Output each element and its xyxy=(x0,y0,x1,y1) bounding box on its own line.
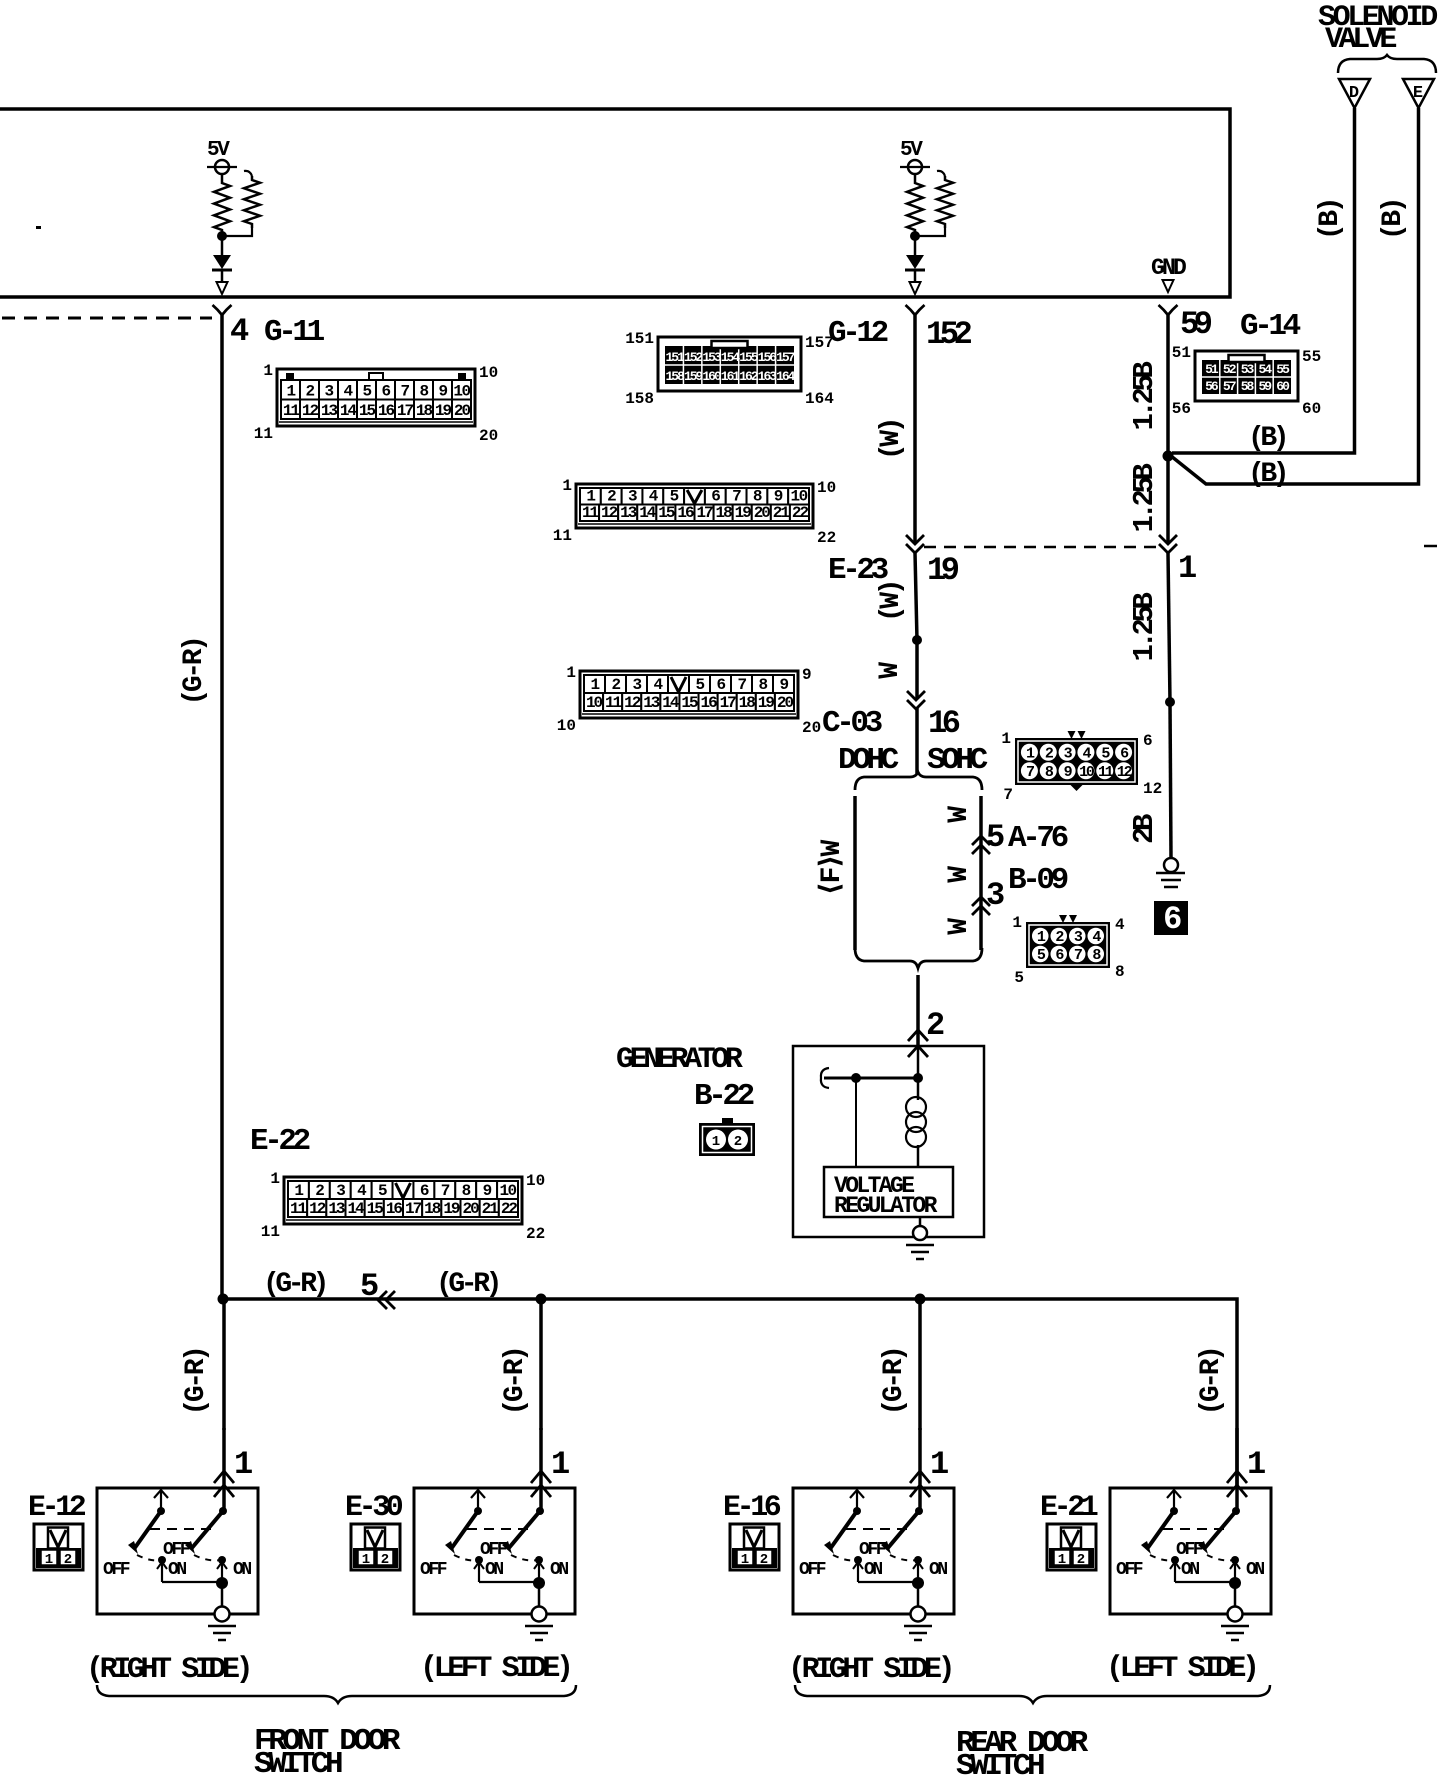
svg-text:151: 151 xyxy=(625,330,654,348)
ground symbol E-30 xyxy=(525,1625,553,1628)
svg-text:16: 16 xyxy=(677,504,694,522)
svg-text:2: 2 xyxy=(611,676,620,694)
svg-text:SOHC: SOHC xyxy=(927,743,988,778)
connector E-22 face xyxy=(284,1177,522,1224)
switch box E-12 xyxy=(97,1488,258,1614)
connector E-23 face xyxy=(576,484,813,528)
svg-text:1: 1 xyxy=(270,1170,280,1188)
svg-text:2: 2 xyxy=(381,1552,389,1568)
svg-text:9: 9 xyxy=(779,676,788,694)
svg-text:12: 12 xyxy=(624,694,641,712)
junction dot on W wire xyxy=(912,635,922,645)
svg-text:3: 3 xyxy=(336,1182,345,1200)
svg-text:56: 56 xyxy=(1172,400,1191,418)
connector C-03 face xyxy=(580,671,798,718)
wire into E-12 xyxy=(222,1428,226,1510)
svg-text:16: 16 xyxy=(386,1200,403,1218)
svg-text:152: 152 xyxy=(926,316,972,353)
svg-text:22: 22 xyxy=(792,504,809,522)
svg-text:13: 13 xyxy=(620,504,637,522)
svg-text:(B): (B) xyxy=(1378,200,1409,240)
switch box E-21 xyxy=(1110,1488,1271,1614)
svg-text:158: 158 xyxy=(666,369,686,384)
left switch arm E-21 xyxy=(1147,1511,1174,1549)
svg-text:OFF: OFF xyxy=(859,1540,886,1560)
svg-text:19: 19 xyxy=(758,694,775,712)
pin 4 connector marker xyxy=(213,305,232,315)
connector E-16 symbol xyxy=(730,1524,779,1570)
left switch arm E-12 xyxy=(134,1511,161,1549)
svg-text:14: 14 xyxy=(340,402,358,420)
dashed travel arc left E-16 xyxy=(833,1555,857,1560)
svg-text:2: 2 xyxy=(305,383,314,401)
brace rear door switch xyxy=(795,1685,1270,1703)
right contact dot E-16 xyxy=(915,1507,923,1515)
svg-text:155: 155 xyxy=(739,350,759,365)
svg-text:19: 19 xyxy=(927,552,959,589)
resistor R-left-1 xyxy=(221,174,224,179)
svg-text:20: 20 xyxy=(479,427,498,445)
crossing marker pin 1 xyxy=(1159,535,1177,544)
svg-text:19: 19 xyxy=(435,402,452,420)
svg-text:4: 4 xyxy=(1115,916,1125,934)
B-09 crossing marker (pin 3) xyxy=(972,897,990,906)
svg-text:9: 9 xyxy=(802,666,812,684)
svg-text:161: 161 xyxy=(721,369,741,384)
svg-text:E-21: E-21 xyxy=(1040,1491,1098,1525)
GND arrow (open triangle) xyxy=(1163,280,1174,292)
ON contact left E-21 xyxy=(1171,1556,1179,1564)
brace over solenoid valve pins xyxy=(1338,55,1436,73)
svg-text:11: 11 xyxy=(582,504,599,522)
svg-text:12: 12 xyxy=(309,1200,326,1218)
case ground circle E-12 xyxy=(215,1607,230,1622)
svg-text:5: 5 xyxy=(695,676,704,694)
ground reference box 6 xyxy=(1154,901,1188,935)
right contact dot E-12 xyxy=(219,1507,227,1515)
svg-text:59: 59 xyxy=(1180,306,1212,343)
svg-text:11: 11 xyxy=(261,1223,280,1241)
svg-text:1: 1 xyxy=(45,1552,53,1568)
svg-text:(G-R): (G-R) xyxy=(1196,1348,1227,1415)
svg-text:ON: ON xyxy=(1246,1560,1264,1580)
ON contact right E-21 xyxy=(1231,1556,1239,1564)
svg-text:SWITCH: SWITCH xyxy=(254,1747,342,1776)
svg-text:15: 15 xyxy=(681,694,698,712)
generator case ground circle xyxy=(913,1226,927,1240)
svg-text:(G-R): (G-R) xyxy=(263,1269,326,1300)
svg-text:16: 16 xyxy=(928,705,960,742)
brace front door switch xyxy=(97,1685,576,1703)
svg-text:20: 20 xyxy=(754,504,771,522)
svg-text:11: 11 xyxy=(290,1200,307,1218)
svg-text:7: 7 xyxy=(1074,947,1082,964)
svg-text:10: 10 xyxy=(790,488,807,506)
svg-text:OFF: OFF xyxy=(1176,1540,1203,1560)
wire brace to generator xyxy=(916,975,920,1046)
svg-text:17: 17 xyxy=(696,504,713,522)
svg-text:160: 160 xyxy=(702,369,722,384)
connector pin 1 marker E-12 xyxy=(214,1471,234,1483)
svg-text:3: 3 xyxy=(628,488,637,506)
svg-text:1: 1 xyxy=(1001,730,1011,748)
svg-text:7: 7 xyxy=(737,676,746,694)
svg-text:164: 164 xyxy=(776,369,796,384)
svg-text:1: 1 xyxy=(294,1182,303,1200)
left contact arrow E-16 xyxy=(850,1490,864,1498)
svg-text:13: 13 xyxy=(643,694,660,712)
svg-text:(B): (B) xyxy=(1248,459,1286,490)
svg-text:11: 11 xyxy=(605,694,622,712)
svg-text:8: 8 xyxy=(758,676,767,694)
svg-text:15: 15 xyxy=(367,1200,384,1218)
svg-text:E-12: E-12 xyxy=(28,1491,86,1525)
svg-text:8: 8 xyxy=(462,1182,471,1200)
svg-text:55: 55 xyxy=(1302,348,1321,366)
pin 152 connector marker xyxy=(906,305,925,315)
svg-text:C-03: C-03 xyxy=(822,706,883,741)
ground junction dot E-16 xyxy=(912,1577,924,1589)
svg-text:20: 20 xyxy=(777,694,794,712)
brace bottom of DOHC/SOHC split xyxy=(855,948,982,968)
svg-text:2: 2 xyxy=(760,1552,768,1568)
svg-text:B-09: B-09 xyxy=(1008,863,1068,898)
coupling dashed link E-12 xyxy=(150,1528,212,1530)
solenoid valve terminal D xyxy=(1339,79,1370,108)
svg-text:GENERATOR: GENERATOR xyxy=(616,1043,743,1077)
diode D-left xyxy=(221,236,224,255)
dashed travel arc right E-16 xyxy=(890,1555,918,1560)
connector pin 1 marker E-21 xyxy=(1227,1471,1247,1483)
dashed travel arc right E-21 xyxy=(1207,1555,1235,1560)
svg-text:2: 2 xyxy=(607,488,616,506)
resistor R-left-2 xyxy=(244,171,252,176)
svg-text:20: 20 xyxy=(454,402,471,420)
wire VR to case ground xyxy=(919,1217,922,1228)
svg-text:(LEFT SIDE): (LEFT SIDE) xyxy=(420,1652,570,1686)
svg-text:A-76: A-76 xyxy=(1008,821,1068,856)
wire junction to ground xyxy=(1170,702,1171,858)
generator pin 2 marker xyxy=(908,1030,928,1041)
svg-text:7: 7 xyxy=(732,488,741,506)
svg-text:9: 9 xyxy=(774,488,783,506)
dashed travel arc right E-12 xyxy=(194,1555,222,1560)
svg-text:10: 10 xyxy=(526,1172,545,1190)
svg-text:16: 16 xyxy=(378,402,395,420)
svg-text:16: 16 xyxy=(700,694,717,712)
left switch arm E-16 xyxy=(830,1511,857,1549)
connector A-76 face xyxy=(1015,738,1138,785)
svg-text:9: 9 xyxy=(438,383,447,401)
coupling dashed link E-16 xyxy=(846,1528,908,1530)
coupling dashed link E-21 xyxy=(1163,1528,1225,1530)
junction dot bus E-30 xyxy=(536,1294,547,1305)
svg-text:14: 14 xyxy=(639,504,657,522)
svg-text:22: 22 xyxy=(501,1200,518,1218)
svg-text:9: 9 xyxy=(483,1182,492,1200)
ON contact right E-16 xyxy=(914,1556,922,1564)
right switch arm E-16 xyxy=(887,1511,919,1549)
dashed travel arc right E-30 xyxy=(511,1555,539,1560)
svg-text:1: 1 xyxy=(1012,914,1022,932)
svg-text:10: 10 xyxy=(479,364,498,382)
output arrow to pin 4 (open triangle) xyxy=(217,282,228,294)
link to ground junction E-16 xyxy=(858,1581,918,1583)
svg-text:(LEFT SIDE): (LEFT SIDE) xyxy=(1106,1652,1256,1686)
right switch arm E-21 xyxy=(1204,1511,1236,1549)
svg-text:153: 153 xyxy=(702,350,722,365)
svg-text:VALVE: VALVE xyxy=(1325,23,1396,57)
ground symbol E-21 xyxy=(1221,1625,1249,1628)
case ground circle E-21 xyxy=(1228,1607,1243,1622)
svg-text:OFF: OFF xyxy=(420,1560,447,1580)
ON contact left E-30 xyxy=(475,1556,483,1564)
svg-text:G-11: G-11 xyxy=(264,315,325,350)
svg-text:DOHC: DOHC xyxy=(838,743,899,778)
svg-text:22: 22 xyxy=(526,1225,545,1243)
wire to voltage regulator left xyxy=(855,1078,857,1167)
svg-text:11: 11 xyxy=(1098,764,1114,781)
junction dot (right 5V) xyxy=(910,231,920,241)
generator ground symbol xyxy=(906,1244,934,1247)
svg-text:(G-R): (G-R) xyxy=(879,1348,910,1415)
svg-text:12: 12 xyxy=(601,504,618,522)
svg-text:12: 12 xyxy=(1117,764,1133,781)
connector C-03 crossing marker xyxy=(907,691,925,700)
svg-text:G-14: G-14 xyxy=(1240,309,1301,344)
svg-text:10: 10 xyxy=(557,717,576,735)
svg-text:8: 8 xyxy=(419,383,428,401)
link to ground junction E-30 xyxy=(479,1581,539,1583)
connector E-12 symbol xyxy=(34,1524,83,1570)
svg-text:5V: 5V xyxy=(900,139,923,162)
ground symbol E-12 xyxy=(208,1625,236,1628)
svg-text:18: 18 xyxy=(716,504,733,522)
svg-text:ON: ON xyxy=(168,1560,186,1580)
svg-text:1: 1 xyxy=(586,488,595,506)
svg-text:10: 10 xyxy=(1079,764,1095,781)
svg-text:5: 5 xyxy=(670,488,679,506)
svg-text:ON: ON xyxy=(1181,1560,1199,1580)
wire 152 to E-23 xyxy=(913,315,917,543)
svg-text:1.25B: 1.25B xyxy=(1128,592,1161,661)
svg-text:22: 22 xyxy=(817,529,836,547)
svg-text:1: 1 xyxy=(712,1134,720,1150)
svg-text:17: 17 xyxy=(720,694,737,712)
link to ground junction E-12 xyxy=(162,1581,222,1583)
svg-text:60: 60 xyxy=(1302,400,1321,418)
voltage regulator box xyxy=(824,1167,953,1217)
svg-text:ON: ON xyxy=(864,1560,882,1580)
brush symbol xyxy=(821,1068,829,1088)
svg-text:11: 11 xyxy=(283,402,300,420)
5V supply circle (right) xyxy=(908,160,922,174)
connector E-23 crossing marker xyxy=(906,535,924,544)
svg-text:154: 154 xyxy=(721,350,741,365)
wire crossing to junction 2 xyxy=(1168,553,1170,702)
bottom bus wire (G-R) xyxy=(222,1299,1237,1489)
diode D-right xyxy=(914,236,917,255)
svg-text:19: 19 xyxy=(443,1200,460,1218)
svg-text:10: 10 xyxy=(453,383,470,401)
ECU box outline xyxy=(0,109,1230,297)
connector G-11 face xyxy=(277,369,475,426)
left contact dot E-16 xyxy=(853,1507,861,1515)
svg-text:11: 11 xyxy=(553,527,572,545)
svg-text:20: 20 xyxy=(462,1200,479,1218)
svg-text:REGULATOR: REGULATOR xyxy=(834,1193,938,1219)
wire from terminal D xyxy=(1172,108,1355,453)
dashed line at pin 4 xyxy=(2,317,212,320)
wire junction to C-03 xyxy=(915,640,919,699)
resistor R-right-1 xyxy=(914,174,917,179)
branch wire to E-30 xyxy=(539,1299,543,1430)
junction dot generator 1 xyxy=(851,1073,861,1083)
ground junction dot E-30 xyxy=(533,1577,545,1589)
dashed travel arc left E-12 xyxy=(137,1555,161,1560)
svg-text:5: 5 xyxy=(378,1182,387,1200)
wire node to crossing 1 xyxy=(1166,456,1170,543)
svg-text:(G-R): (G-R) xyxy=(436,1269,499,1300)
svg-text:164: 164 xyxy=(805,390,834,408)
svg-text:163: 163 xyxy=(758,369,778,384)
svg-text:1: 1 xyxy=(590,676,599,694)
link to ground junction E-21 xyxy=(1175,1581,1235,1583)
connector pin 1 marker E-16 xyxy=(910,1471,930,1483)
svg-text:OFF: OFF xyxy=(480,1540,507,1560)
left contact arrow E-21 xyxy=(1167,1490,1181,1498)
wire C-03 to DOHC/SOHC brace xyxy=(915,708,919,774)
svg-text:3: 3 xyxy=(324,383,333,401)
right switch arm E-12 xyxy=(191,1511,223,1549)
svg-text:GND: GND xyxy=(1151,255,1186,281)
dashed travel arc left E-21 xyxy=(1150,1555,1174,1560)
svg-text:OFF: OFF xyxy=(163,1540,190,1560)
ground symbol E-16 xyxy=(904,1625,932,1628)
svg-text:1: 1 xyxy=(741,1552,749,1568)
svg-text:17: 17 xyxy=(397,402,414,420)
svg-text:1.25B: 1.25B xyxy=(1128,463,1161,532)
svg-text:2: 2 xyxy=(315,1182,324,1200)
svg-text:6: 6 xyxy=(1143,732,1153,750)
left switch arm E-30 xyxy=(451,1511,478,1549)
svg-text:6: 6 xyxy=(711,488,720,506)
svg-text:6: 6 xyxy=(716,676,725,694)
connector pin 1 marker E-30 xyxy=(531,1471,551,1483)
A-76 crossing marker (pin 5) xyxy=(972,836,990,845)
ground circle right wire xyxy=(1164,858,1178,872)
ON contact left E-12 xyxy=(158,1556,166,1564)
svg-text:10: 10 xyxy=(817,479,836,497)
svg-text:ON: ON xyxy=(233,1560,251,1580)
connector B-09 face xyxy=(1026,922,1110,968)
svg-text:13: 13 xyxy=(328,1200,345,1218)
svg-text:E: E xyxy=(1413,84,1423,103)
ON contact left E-16 xyxy=(854,1556,862,1564)
svg-text:19: 19 xyxy=(735,504,752,522)
svg-text:2: 2 xyxy=(734,1134,742,1150)
svg-text:13: 13 xyxy=(321,402,338,420)
left contact dot E-12 xyxy=(157,1507,165,1515)
ON contact right E-30 xyxy=(535,1556,543,1564)
dashed travel arc left E-30 xyxy=(454,1555,478,1560)
svg-text:(B): (B) xyxy=(1315,200,1346,240)
brace top of DOHC/SOHC split xyxy=(855,772,982,790)
svg-text:12: 12 xyxy=(302,402,319,420)
switch box E-30 xyxy=(414,1488,575,1614)
svg-text:12: 12 xyxy=(1143,780,1162,798)
svg-text:7: 7 xyxy=(441,1182,450,1200)
svg-text:6: 6 xyxy=(1163,901,1181,938)
svg-text:18: 18 xyxy=(739,694,756,712)
field coil xyxy=(917,1078,920,1100)
connector G-12 face xyxy=(658,337,801,391)
svg-text:E-30: E-30 xyxy=(345,1491,403,1525)
generator box xyxy=(793,1046,984,1237)
branch wire to E-12 xyxy=(222,1299,226,1430)
case ground circle E-16 xyxy=(911,1607,926,1622)
svg-text:OFF: OFF xyxy=(799,1560,826,1580)
stray scan mark xyxy=(36,226,41,229)
svg-text:E-22: E-22 xyxy=(250,1124,310,1159)
svg-text:ON: ON xyxy=(929,1560,947,1580)
svg-text:14: 14 xyxy=(662,694,680,712)
svg-text:2B: 2B xyxy=(1128,814,1161,844)
svg-text:ON: ON xyxy=(485,1560,503,1580)
junction dot (left 5V) xyxy=(217,231,227,241)
svg-text:7: 7 xyxy=(400,383,409,401)
svg-text:G-12: G-12 xyxy=(828,316,888,351)
left contact arrow E-30 xyxy=(471,1490,485,1498)
ON contact right E-12 xyxy=(218,1556,226,1564)
svg-text:SWITCH: SWITCH xyxy=(956,1749,1044,1776)
svg-text:(G-R): (G-R) xyxy=(500,1348,531,1415)
svg-text:18: 18 xyxy=(424,1200,441,1218)
svg-text:1: 1 xyxy=(1058,1552,1066,1568)
svg-text:21: 21 xyxy=(482,1200,499,1218)
svg-text:⟨F⟩W: ⟨F⟩W xyxy=(817,840,848,897)
left contact dot E-21 xyxy=(1170,1507,1178,1515)
svg-text:2: 2 xyxy=(64,1552,72,1568)
svg-text:18: 18 xyxy=(416,402,433,420)
svg-text:10: 10 xyxy=(586,694,603,712)
svg-text:151: 151 xyxy=(666,350,686,365)
coupling dashed link E-30 xyxy=(467,1528,529,1530)
svg-text:7: 7 xyxy=(1003,786,1013,804)
svg-text:5: 5 xyxy=(362,383,371,401)
solenoid valve terminal E xyxy=(1403,79,1434,108)
svg-text:20: 20 xyxy=(802,719,821,737)
svg-text:6: 6 xyxy=(420,1182,429,1200)
svg-text:1: 1 xyxy=(286,383,295,401)
case ground circle E-30 xyxy=(532,1607,547,1622)
svg-text:159: 159 xyxy=(684,369,704,384)
resistor R-right-2 xyxy=(937,171,945,176)
dashed line E-23 to solenoid node xyxy=(924,546,1158,549)
svg-text:8: 8 xyxy=(1115,963,1125,981)
svg-text:57: 57 xyxy=(1223,379,1236,394)
svg-text:5V: 5V xyxy=(207,139,230,162)
svg-text:1.25B: 1.25B xyxy=(1128,361,1161,430)
svg-text:7: 7 xyxy=(1026,764,1034,781)
svg-text:156: 156 xyxy=(758,350,778,365)
connector E-30 symbol xyxy=(351,1524,400,1570)
svg-text:1: 1 xyxy=(362,1552,370,1568)
svg-text:152: 152 xyxy=(684,350,704,365)
svg-text:1: 1 xyxy=(562,477,572,495)
switch box E-16 xyxy=(793,1488,954,1614)
svg-text:11: 11 xyxy=(254,425,273,443)
